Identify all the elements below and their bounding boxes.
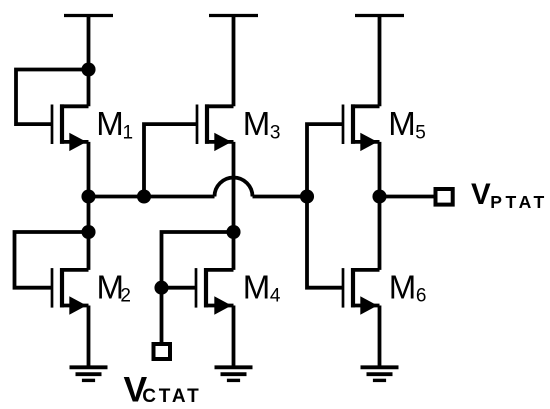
wire: M1 diode loop (gate to drain) — [16, 70, 89, 125]
ground (under M4) — [215, 367, 253, 380]
wire: M6 gate to bus node — [307, 197, 343, 288]
node: M5 source / M6 drain / VPTAT junction — [372, 189, 386, 203]
node: M2 gate-drain junction — [81, 225, 95, 239]
node: bus / M5-M6 gate junction — [300, 189, 314, 203]
svg-text:PTAT: PTAT — [490, 192, 548, 212]
node: M1 gate-drain junction — [81, 62, 95, 76]
label M2 — [97, 268, 131, 306]
svg-text:M: M — [243, 105, 270, 142]
svg-text:CTAT: CTAT — [142, 386, 201, 407]
transistor M2 — [52, 268, 89, 315]
svg-text:4: 4 — [270, 286, 281, 307]
label VPTAT — [471, 178, 548, 212]
VDD rail (left) — [64, 14, 113, 17]
label M3 — [243, 105, 281, 143]
transistor M4 — [196, 268, 234, 315]
svg-text:V: V — [471, 178, 491, 211]
node: M4 gate junction — [154, 281, 168, 295]
node: M3 source / M4 drain junction — [226, 225, 240, 239]
wire: middle rail to M3 drain — [232, 16, 236, 107]
svg-text:M: M — [243, 268, 270, 305]
wire: M4 source down to ground — [232, 306, 236, 368]
wire: M2 source down to ground — [87, 306, 91, 368]
svg-text:5: 5 — [415, 123, 426, 144]
transistor M6 — [343, 268, 380, 315]
wire: M4 drain node to gate node — [162, 232, 234, 288]
terminal VCTAT (square) — [154, 344, 171, 359]
label M1 — [96, 105, 133, 143]
transistor M5 — [343, 104, 380, 151]
wire: right rail to M5 drain — [378, 16, 382, 107]
wire: M4 gate node to gate — [162, 286, 197, 290]
wire: M1 source down to M2 drain — [87, 142, 91, 270]
wire: M5 source down to M6 drain — [378, 142, 382, 270]
svg-text:6: 6 — [416, 286, 427, 307]
svg-text:2: 2 — [120, 286, 131, 307]
svg-text:M: M — [96, 105, 124, 142]
terminal VPTAT (square) — [436, 189, 453, 205]
wire: M3 source down to M4 drain — [232, 142, 236, 270]
wire: M6 source down to ground — [378, 306, 382, 368]
label M5 — [388, 105, 425, 143]
wire: M5 gate to bus node — [307, 124, 343, 196]
label VCTAT — [124, 370, 202, 409]
svg-text:3: 3 — [270, 123, 281, 144]
wire: bus hop over M3 source line — [215, 178, 253, 197]
svg-text:M: M — [388, 105, 416, 142]
wire: M2 diode loop (gate to drain) — [15, 232, 89, 288]
svg-text:1: 1 — [123, 123, 134, 144]
node: bus / M3 gate junction — [137, 189, 151, 203]
wire: M5/M6 node to VPTAT terminal — [380, 195, 436, 199]
label M4 — [243, 268, 281, 306]
VDD rail (middle) — [209, 14, 258, 17]
label M6 — [389, 268, 427, 306]
transistor M1 — [52, 104, 89, 151]
ground (under M6) — [361, 367, 399, 380]
wire: M3 gate to bus node — [144, 124, 197, 196]
wire: left rail to M1 drain — [87, 16, 91, 107]
wire: horizontal bus left segment — [89, 195, 215, 199]
ground (under M2) — [70, 367, 108, 380]
VDD rail (right) — [355, 14, 404, 17]
transistor M3 — [197, 104, 234, 151]
svg-text:M: M — [389, 268, 417, 305]
node: bus / left trunk junction — [81, 189, 95, 203]
wire: M4 gate node down to VCTAT terminal — [160, 288, 164, 343]
wire: horizontal bus right segment — [253, 195, 308, 199]
